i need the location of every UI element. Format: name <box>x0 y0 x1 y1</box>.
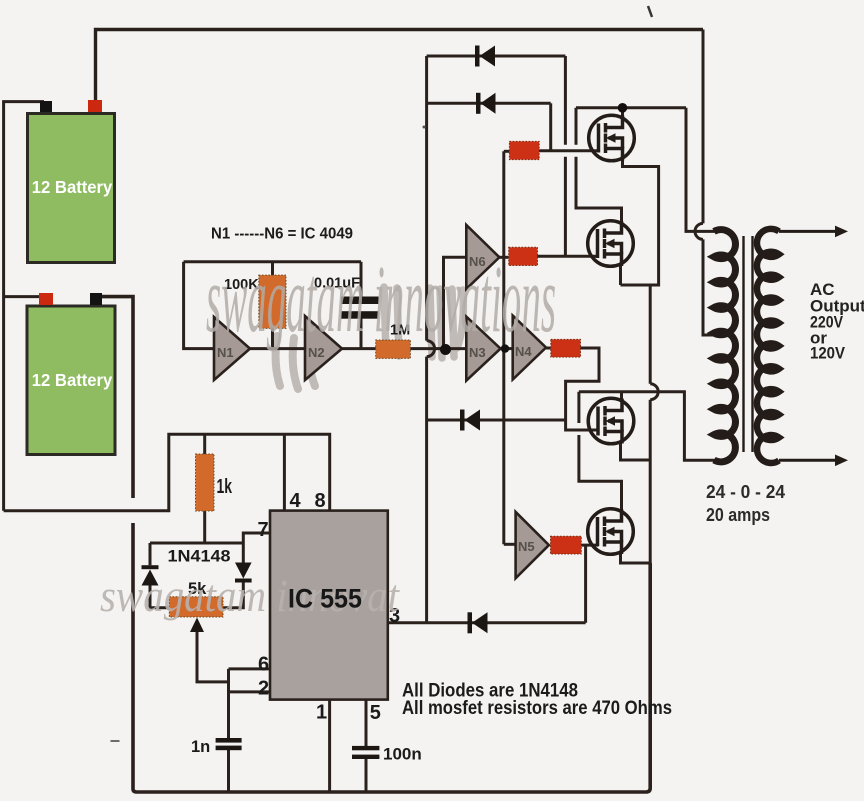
wire D6 branch <box>223 582 243 608</box>
capacitor 0.01uF plates <box>341 297 379 319</box>
wire battery B1 negative to left rail <box>4 102 44 511</box>
svg-text:N1 ------N6 = IC 4049: N1 ------N6 = IC 4049 <box>211 226 353 243</box>
svg-text:All mosfet resistors are 470 O: All mosfet resistors are 470 Ohms <box>402 698 672 719</box>
svg-text:IC 555: IC 555 <box>288 584 362 614</box>
wire pin6/pin2/wiper vertical to 1n cap <box>227 669 230 739</box>
svg-text:4: 4 <box>290 490 302 512</box>
label AC output <box>810 280 864 363</box>
svg-text:6: 6 <box>258 654 269 676</box>
svg-text:24 - 0 - 24: 24 - 0 - 24 <box>706 482 785 502</box>
wire 100K branch vertical <box>271 262 274 349</box>
wire N4 output to R3 <box>546 347 551 350</box>
stray dot <box>423 126 426 129</box>
wire secondary top lead with output arrow <box>779 226 848 238</box>
svg-text:1n: 1n <box>191 738 210 756</box>
wire pin 7 rail and jog to IC <box>150 533 270 563</box>
wire M1 gate wire from R1 <box>539 149 598 152</box>
svg-text:swagatam innovations: swagatam innovations <box>206 245 556 352</box>
wire pin3 riser to M4 gate line <box>584 545 587 623</box>
inverter gate N1 <box>214 317 250 380</box>
svg-text:120V: 120V <box>810 344 846 363</box>
resistor R1 470 ohm gate resistor of M1 <box>509 141 539 159</box>
wire pin 4 drop <box>283 434 286 510</box>
node N3 output junction dot <box>501 344 509 352</box>
diode D4 1N4148 on pin 3 line <box>468 612 488 633</box>
wire secondary bottom lead with output arrow <box>779 455 848 467</box>
inverter gate N3 <box>466 317 500 381</box>
wire IC555 pin 3 output line with diode D4 <box>388 621 586 624</box>
wire gate-drive vertical bus R1/N6/R2/N3-node/N5 <box>502 151 505 544</box>
wire M1 drain stub <box>621 108 624 116</box>
mosfet M3 <box>588 398 634 444</box>
transformer core lines <box>744 236 753 452</box>
resistor 100K <box>259 275 286 328</box>
wire N5 input lead <box>504 543 516 546</box>
wire left supply rail to IC555 pins 4 and 8 <box>4 434 330 511</box>
wire battery B2 positive to left rail <box>4 295 40 298</box>
svg-text:N5: N5 <box>518 539 535 554</box>
wire M2 source stub <box>619 266 622 285</box>
svg-text:12 Battery: 12 Battery <box>32 177 113 197</box>
wire M2 gate wire from R2 <box>538 255 599 258</box>
battery B1 body <box>28 114 115 263</box>
battery B1 positive terminal <box>88 100 102 112</box>
wire 1k top lead <box>203 434 206 454</box>
inverter gate N6 <box>466 225 499 289</box>
wire diode D2 line <box>427 102 551 105</box>
wire N3 output to N4 input <box>501 347 513 350</box>
svg-text:20 amps: 20 amps <box>706 505 770 525</box>
transformer primary winding <box>714 230 735 462</box>
resistor R4 470 ohm gate resistor of M4 <box>551 536 582 554</box>
wire R4 to M4 gate wire <box>581 544 598 547</box>
potentiometer wiper arrowhead <box>190 618 204 633</box>
diode D2 1N4148 <box>476 93 496 114</box>
wire D1 cathode drop to M2 gate line with break at M1 gate wire <box>564 56 567 256</box>
battery B1 negative terminal <box>40 101 52 112</box>
wire D5 branch <box>150 543 169 608</box>
wire diode D1 line <box>427 55 566 58</box>
wire top positive rail from battery B1 to transformer center-tap line <box>96 30 704 101</box>
wire R1 left lead <box>504 150 510 153</box>
wire M3 source to ground bus <box>621 444 651 461</box>
wire drain line down to M4 drain with break at M3 gate wire <box>579 392 622 509</box>
svg-text:8: 8 <box>315 490 326 512</box>
diode D5 1N4148 vertical <box>142 565 159 585</box>
mosfet M4 <box>588 509 634 555</box>
wire M1 drain rail <box>576 106 686 109</box>
node main oscillator junction dot <box>440 344 451 355</box>
stray dash mark <box>111 740 120 742</box>
resistor R3 470 ohm gate resistor of M3 <box>551 339 581 357</box>
wire center-tap vertical with hop over primary top lead <box>695 30 716 336</box>
inverter gate N2 <box>305 316 342 380</box>
IC U1 555 timer body <box>270 511 388 700</box>
resistor 1k <box>196 454 215 511</box>
wire diode D3 line <box>427 419 566 422</box>
wire M1 source to ground bus <box>621 161 659 286</box>
wire primary top lead from drain rail <box>686 108 716 232</box>
wire 100n bottom lead to ground rail <box>365 758 368 793</box>
diode D3 1N4148 <box>460 410 480 431</box>
watermark descender flourishes <box>276 287 487 389</box>
wire N6 output to R2 left lead <box>499 256 508 259</box>
inverter gate N5 <box>516 512 549 578</box>
label 24 - 0 - 24 / 20 amps <box>706 482 785 525</box>
wire M3 drain stub <box>620 392 623 399</box>
wire N6 input branch from main node <box>444 257 467 348</box>
transformer secondary winding <box>757 229 779 463</box>
wire pin 2 lead <box>229 690 271 693</box>
wire pin 6 lead <box>229 667 271 670</box>
capacitor 100n plates <box>352 746 379 759</box>
wire R3 to M3 gate routing <box>566 348 599 430</box>
wire oscillator box left side to N1 input <box>184 262 214 349</box>
svg-text:1: 1 <box>316 702 327 724</box>
stray speck mark <box>648 6 652 17</box>
svg-text:100n: 100n <box>383 745 422 764</box>
wire oscillator feedback box top rail <box>184 260 361 263</box>
battery B2 positive terminal <box>39 293 53 305</box>
wire capacitor branch vertical <box>360 262 363 349</box>
wire 1n cap bottom lead to ground rail <box>227 750 230 792</box>
wire pin 5 lead to 100n cap <box>365 700 368 747</box>
battery B2 negative terminal <box>90 293 102 305</box>
svg-text:1k: 1k <box>217 476 233 498</box>
inverter gate N4 <box>513 316 546 380</box>
wire diode bus vertical with hop over main line <box>427 56 435 623</box>
wire drain rail down to M2 drain with break at M1 gate wire <box>576 108 622 221</box>
diode D6 1N4148 vertical <box>235 563 252 583</box>
wire M4 source to ground bus <box>621 554 651 563</box>
resistor R2 470 ohm gate resistor of M2 <box>509 247 538 265</box>
svg-text:12 Battery: 12 Battery <box>32 370 113 390</box>
resistor 1M <box>376 340 411 358</box>
wire M3 drain line to transformer bottom <box>579 392 716 461</box>
wire 5k wiper arm <box>197 630 229 682</box>
mosfet M1 <box>589 115 635 161</box>
potentiometer 5k <box>169 597 223 617</box>
wire D2 cathode drop to M1 gate line <box>549 103 552 150</box>
capacitor 1n plates <box>216 738 242 750</box>
wire 1k bottom lead to pin7 rail <box>203 511 206 543</box>
mosfet M2 <box>588 221 634 267</box>
wire ground bus vertical with hop over drain line <box>650 285 658 565</box>
node M1 drain junction dot <box>618 103 628 113</box>
wire pin 1 lead to ground rail <box>328 700 331 792</box>
svg-text:1N4148: 1N4148 <box>168 547 231 566</box>
svg-text:7: 7 <box>258 519 269 541</box>
wire main oscillator output line N1 to N3 <box>250 347 466 350</box>
battery B2 body <box>27 306 115 455</box>
wire battery B2 negative down to ground rail with break at supply rail crossing <box>101 297 650 792</box>
diode D1 1N4148 <box>475 46 495 67</box>
svg-text:5: 5 <box>370 702 381 724</box>
svg-text:2: 2 <box>258 678 269 700</box>
